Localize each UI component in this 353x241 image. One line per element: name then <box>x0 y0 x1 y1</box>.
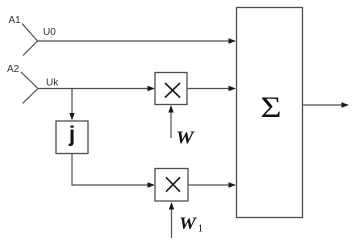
weight arrow W1 into M2 <box>169 202 174 238</box>
label sigma <box>261 91 282 124</box>
svg-text:Uk: Uk <box>46 78 59 89</box>
label W <box>176 128 195 148</box>
svg-text:A2: A2 <box>7 64 20 75</box>
wire M2 to summer <box>188 182 236 187</box>
svg-text:W: W <box>176 128 195 148</box>
wire Uk to multiplier M1 <box>38 86 155 91</box>
weight arrow W into M1 <box>168 105 173 138</box>
svg-text:A1: A1 <box>9 15 22 26</box>
antenna A2 <box>21 72 38 104</box>
multiplier M2 <box>155 169 188 202</box>
antenna A1 <box>22 24 38 56</box>
wire U0 to summer <box>38 38 237 43</box>
block j <box>56 121 88 154</box>
wire branch down to block j <box>69 89 74 121</box>
multiplier M1 <box>155 73 187 105</box>
wire j block to multiplier M2 <box>72 154 155 188</box>
svg-text:U0: U0 <box>43 27 56 38</box>
label W1 <box>179 213 203 234</box>
output wire <box>303 102 350 107</box>
svg-text:j: j <box>68 122 75 147</box>
wire M1 to summer <box>187 86 236 91</box>
summer block <box>237 8 303 218</box>
svg-text:Σ: Σ <box>261 91 282 124</box>
